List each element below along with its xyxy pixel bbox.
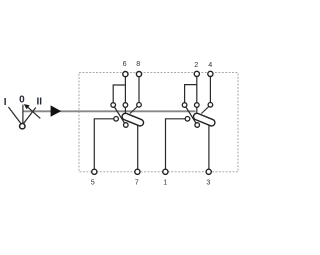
svg-text:5: 5 (91, 178, 95, 187)
rotor bar pole 2 (192, 112, 215, 127)
wire contact E2 to terminal 1 (166, 119, 186, 172)
contact finger C1 (130, 105, 139, 114)
contact B2 (195, 103, 200, 108)
contact finger C2 (201, 105, 210, 114)
selector line to 0 (22, 105, 24, 124)
terminal 1 (163, 169, 168, 174)
wire terminal 4 down (209, 76, 211, 103)
svg-text:1: 1 (163, 178, 167, 187)
selector pivot circle (20, 124, 25, 129)
contact C2 (208, 103, 213, 108)
terminal 8 (136, 72, 141, 77)
wire contact E1 to terminal 5 (94, 119, 113, 172)
terminal 5 (92, 169, 97, 174)
terminal 6 (123, 72, 128, 77)
wire rotor2 to terminal 3 (208, 121, 210, 172)
contact finger A2-D2 (185, 105, 198, 125)
wire branch 2 to contact A2 (185, 85, 197, 103)
contact D2 (195, 123, 200, 128)
contact C1 (137, 103, 142, 108)
contact A1 (111, 103, 116, 108)
svg-text:II: II (37, 97, 43, 108)
wire terminal 2 down (196, 76, 198, 103)
wire terminal 8 down (138, 77, 140, 103)
svg-text:I: I (4, 97, 7, 108)
contact B1 (123, 103, 128, 108)
contact finger A1-D1 (113, 105, 126, 125)
contact finger B1 (124, 105, 126, 114)
enclosure dashed box (79, 73, 238, 172)
terminal 4 (208, 71, 213, 76)
svg-text:6: 6 (123, 59, 127, 68)
svg-text:2: 2 (194, 60, 198, 69)
rotor bar pole 1 (121, 112, 144, 127)
wire terminal 6 down (124, 77, 126, 103)
terminal 2 (194, 71, 199, 76)
contact E2 (185, 117, 190, 122)
svg-text:8: 8 (136, 59, 140, 68)
terminal 7 (135, 169, 140, 174)
shaft line (23, 110, 195, 112)
svg-text:0: 0 (19, 94, 25, 105)
contact finger B2 (196, 105, 198, 114)
selector line to I (8, 107, 21, 124)
svg-text:7: 7 (135, 178, 139, 187)
terminal 3 (206, 169, 211, 174)
svg-text:3: 3 (206, 178, 210, 187)
selector line to II (24, 108, 36, 124)
svg-text:4: 4 (208, 60, 212, 69)
shaft arrow (51, 105, 62, 116)
contact A2 (182, 103, 187, 108)
wire rotor1 to terminal 7 (137, 121, 139, 172)
contact E1 (114, 117, 119, 122)
contact D1 (124, 123, 129, 128)
wire branch 6 to contact A1 (113, 85, 125, 103)
selector position arrow (26, 106, 40, 119)
